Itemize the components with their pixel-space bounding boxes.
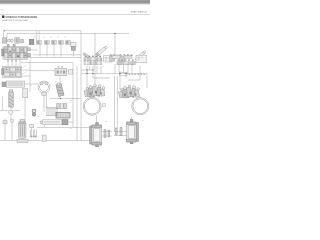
svg-text:TM: TM — [0, 10, 3, 12]
svg-text:(+): (+) — [96, 78, 99, 80]
svg-text:GEAR TRAIN-04: GEAR TRAIN-04 — [131, 10, 148, 13]
svg-text:HYDRAULIC SYSTEM DIAGRAM: HYDRAULIC SYSTEM DIAGRAM — [6, 15, 38, 19]
svg-text:(GEAR SHIFT) (24CH ACTUAL): (GEAR SHIFT) (24CH ACTUAL) — [2, 19, 28, 22]
svg-text:(+): (+) — [105, 78, 108, 80]
